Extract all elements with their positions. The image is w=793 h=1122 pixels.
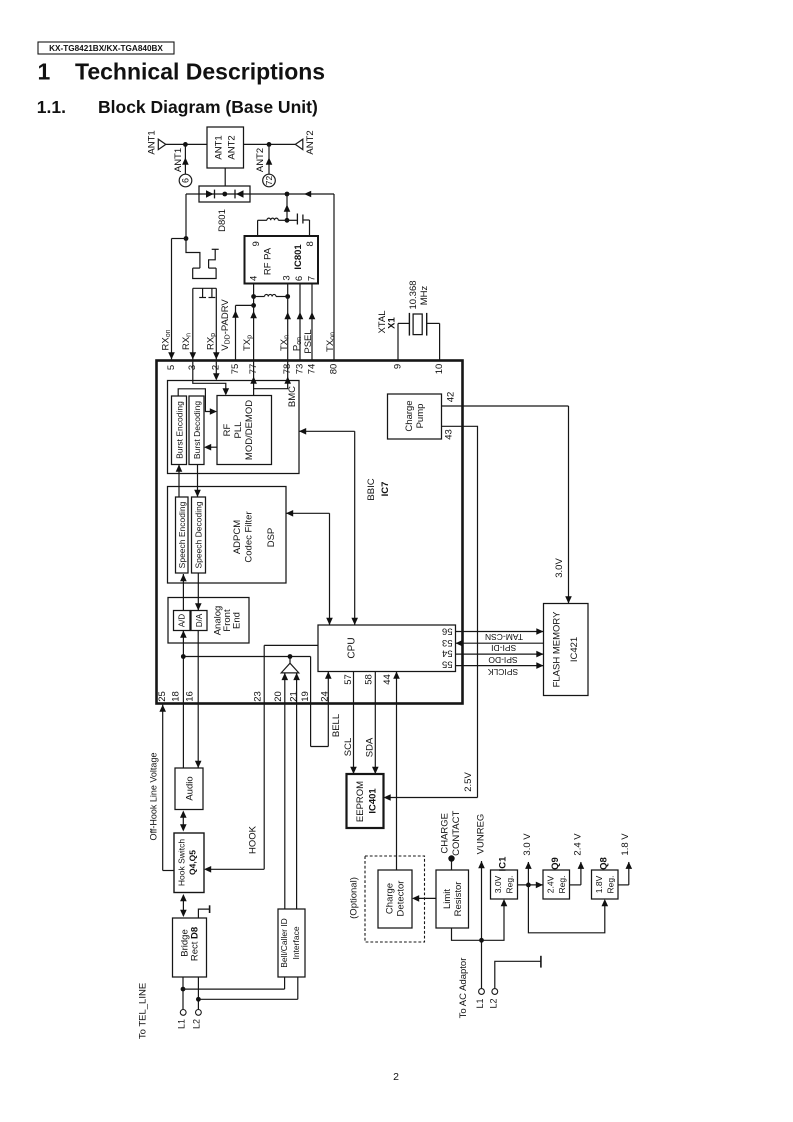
svg-text:IC401: IC401 <box>367 788 378 814</box>
svg-text:IC421: IC421 <box>569 637 580 662</box>
svg-text:2.5V: 2.5V <box>463 772 474 792</box>
svg-text:56: 56 <box>442 626 453 637</box>
svg-text:16: 16 <box>184 691 195 702</box>
svg-text:ADPCM: ADPCM <box>232 520 243 554</box>
svg-text:54: 54 <box>442 648 453 659</box>
svg-text:58: 58 <box>363 674 374 685</box>
svg-text:Limit: Limit <box>442 889 453 909</box>
svg-text:RF PA: RF PA <box>262 247 273 275</box>
svg-text:Rect D8: Rect D8 <box>190 927 201 961</box>
svg-text:SPI-DO: SPI-DO <box>488 655 518 665</box>
svg-text:21: 21 <box>289 691 300 702</box>
svg-text:FLASH MEMORY: FLASH MEMORY <box>551 611 562 688</box>
svg-text:ANT2: ANT2 <box>305 130 316 154</box>
svg-text:CONTACT: CONTACT <box>451 811 462 856</box>
svg-text:Reg.: Reg. <box>606 876 616 894</box>
svg-text:IC801: IC801 <box>293 244 304 270</box>
svg-text:DSP: DSP <box>266 528 277 548</box>
svg-text:Resistor: Resistor <box>453 882 464 917</box>
svg-text:18: 18 <box>171 691 182 702</box>
svg-text:SCL: SCL <box>343 738 354 756</box>
svg-text:ANT2: ANT2 <box>255 148 266 172</box>
svg-text:IC7: IC7 <box>380 482 391 497</box>
svg-text:7: 7 <box>307 276 318 281</box>
svg-text:BMC: BMC <box>287 386 298 407</box>
svg-text:Q8: Q8 <box>598 857 609 870</box>
svg-text:SPI-DI: SPI-DI <box>491 643 516 653</box>
svg-text:25: 25 <box>157 691 168 702</box>
svg-text:IC1: IC1 <box>497 856 508 872</box>
svg-text:CPU: CPU <box>347 637 358 658</box>
svg-text:To TEL_LINE: To TEL_LINE <box>137 983 148 1039</box>
svg-text:KX-TG8421BX/KX-TGA840BX: KX-TG8421BX/KX-TGA840BX <box>49 44 163 53</box>
svg-text:5: 5 <box>166 365 177 370</box>
svg-text:EEPROM: EEPROM <box>355 781 366 822</box>
svg-text:75: 75 <box>230 364 241 375</box>
svg-text:Burst Decoding: Burst Decoding <box>192 401 202 459</box>
svg-text:VUNREG: VUNREG <box>475 814 486 855</box>
svg-text:1.1.: 1.1. <box>37 97 66 117</box>
svg-text:ANT1: ANT1 <box>173 148 184 172</box>
svg-text:44: 44 <box>382 674 393 685</box>
svg-text:20: 20 <box>273 691 284 702</box>
svg-text:3.0V: 3.0V <box>493 875 503 893</box>
svg-text:43: 43 <box>443 429 454 440</box>
svg-text:8: 8 <box>305 241 316 246</box>
svg-text:SPICLK: SPICLK <box>488 667 519 677</box>
svg-text:74: 74 <box>306 364 317 375</box>
svg-text:Pump: Pump <box>415 404 426 429</box>
svg-text:Technical Descriptions: Technical Descriptions <box>75 59 325 85</box>
svg-text:Speech Decoding: Speech Decoding <box>194 501 204 568</box>
svg-text:ANT2: ANT2 <box>226 135 237 159</box>
svg-text:53: 53 <box>442 637 453 648</box>
svg-text:Interface: Interface <box>291 926 301 959</box>
svg-text:L1: L1 <box>177 1019 187 1029</box>
svg-text:2.4 V: 2.4 V <box>572 833 583 856</box>
svg-text:73: 73 <box>294 364 305 375</box>
svg-text:24: 24 <box>320 691 331 702</box>
svg-text:9: 9 <box>251 241 262 246</box>
svg-text:X1: X1 <box>387 316 398 328</box>
svg-text:Q9: Q9 <box>550 857 561 870</box>
svg-text:D/A: D/A <box>195 613 204 627</box>
svg-text:PLL: PLL <box>233 422 244 439</box>
svg-text:3: 3 <box>282 275 293 280</box>
svg-text:MOD/DEMOD: MOD/DEMOD <box>244 400 255 460</box>
svg-text:ANT1: ANT1 <box>214 135 225 159</box>
svg-text:42: 42 <box>445 392 456 403</box>
svg-text:72: 72 <box>264 176 274 186</box>
svg-text:ANT1: ANT1 <box>146 130 157 154</box>
svg-text:SDA: SDA <box>364 737 375 757</box>
svg-text:Detector: Detector <box>395 881 406 917</box>
svg-text:Hook Switch: Hook Switch <box>177 839 187 887</box>
svg-text:19: 19 <box>300 691 311 702</box>
svg-text:55: 55 <box>442 659 453 670</box>
svg-text:57: 57 <box>343 674 354 685</box>
svg-text:Charge: Charge <box>404 400 415 431</box>
svg-text:3.0V: 3.0V <box>554 558 565 578</box>
svg-text:End: End <box>231 612 242 629</box>
svg-text:Off-Hook Line Voltage: Off-Hook Line Voltage <box>149 753 159 841</box>
svg-text:Codec Filter: Codec Filter <box>243 511 254 562</box>
svg-text:L2: L2 <box>489 998 499 1008</box>
svg-text:4: 4 <box>249 276 260 281</box>
svg-text:3.0 V: 3.0 V <box>522 833 533 856</box>
svg-text:TAM-CSN: TAM-CSN <box>485 632 523 642</box>
svg-text:6: 6 <box>181 178 191 183</box>
svg-text:Block Diagram (Base Unit): Block Diagram (Base Unit) <box>98 97 318 117</box>
svg-text:Bell/Caller ID: Bell/Caller ID <box>279 918 289 968</box>
svg-text:MHz: MHz <box>419 285 430 305</box>
svg-text:Reg.: Reg. <box>557 876 567 894</box>
svg-text:Charge: Charge <box>385 883 396 914</box>
svg-text:6: 6 <box>294 276 305 281</box>
svg-text:Speech Encoding: Speech Encoding <box>177 501 187 568</box>
svg-text:1: 1 <box>38 59 51 85</box>
svg-text:80: 80 <box>328 364 339 375</box>
svg-text:HOOK: HOOK <box>248 825 259 854</box>
svg-text:Q4,Q5: Q4,Q5 <box>187 850 197 875</box>
svg-text:RF: RF <box>222 423 233 436</box>
svg-text:L1: L1 <box>475 998 485 1008</box>
svg-text:L2: L2 <box>191 1019 201 1029</box>
svg-text:D801: D801 <box>217 209 228 232</box>
svg-text:1.8 V: 1.8 V <box>620 833 631 856</box>
svg-text:CHARGE: CHARGE <box>439 813 450 854</box>
svg-text:Burst Encoding: Burst Encoding <box>174 401 184 459</box>
svg-text:23: 23 <box>253 691 264 702</box>
svg-text:10.368: 10.368 <box>408 280 419 309</box>
svg-text:9: 9 <box>392 364 403 369</box>
svg-text:2: 2 <box>393 1071 399 1083</box>
svg-text:10: 10 <box>434 364 445 375</box>
svg-text:(Optional): (Optional) <box>349 877 360 919</box>
svg-text:Reg.: Reg. <box>505 876 515 894</box>
svg-text:1.8V: 1.8V <box>594 875 604 893</box>
svg-text:BBIC: BBIC <box>366 478 377 500</box>
svg-text:2.4V: 2.4V <box>546 875 556 893</box>
svg-text:BELL: BELL <box>331 714 342 737</box>
svg-text:Audio: Audio <box>184 776 195 800</box>
svg-text:A/D: A/D <box>178 614 187 628</box>
svg-text:To AC Adaptor: To AC Adaptor <box>458 958 469 1019</box>
